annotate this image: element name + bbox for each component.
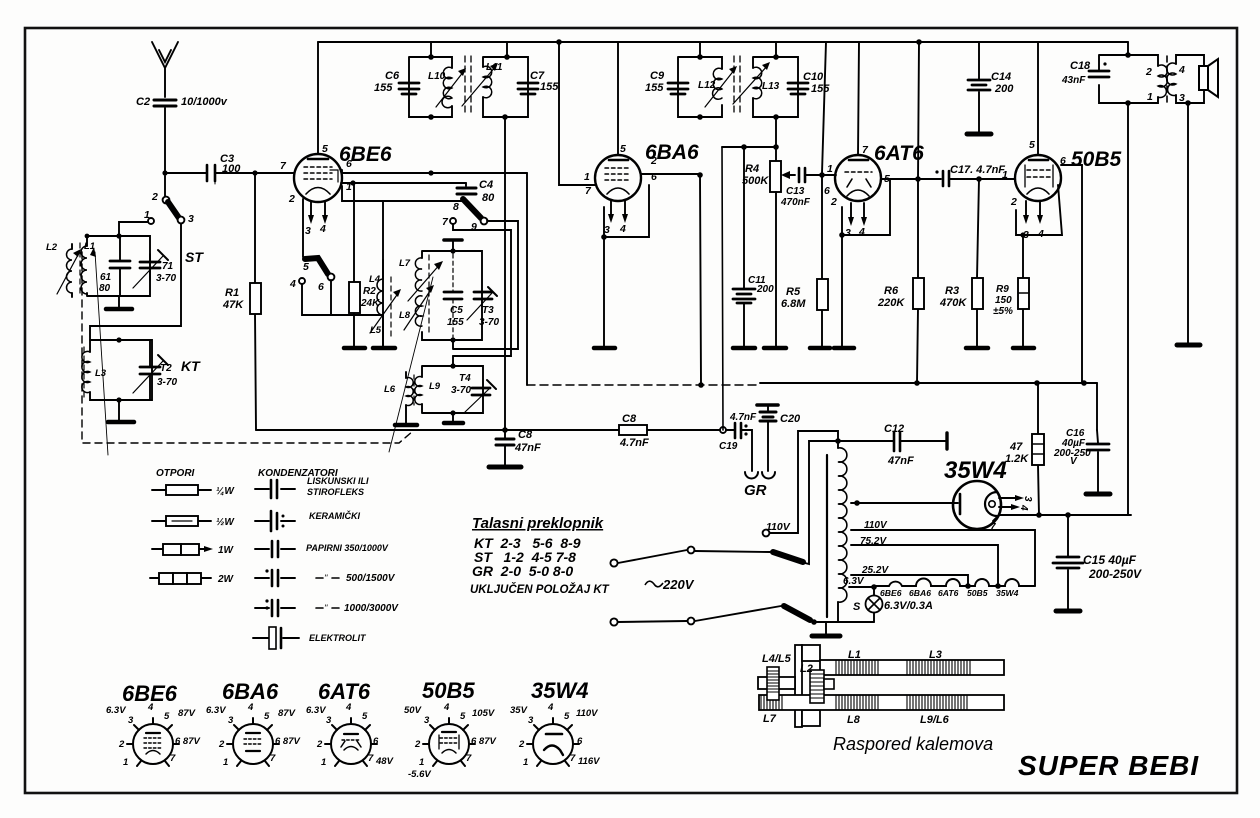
trimmer T3 3-70 [474, 292, 492, 299]
svg-text:2W: 2W [217, 574, 235, 585]
heater chain 6BE6 6BA6 6AT6 50B5 35W4 [874, 579, 1035, 586]
svg-text:½W: ½W [216, 517, 235, 528]
50B5 pin numbers [1002, 139, 1066, 241]
6BE6 pin5 to bus [317, 42, 319, 154]
coil board plate [795, 645, 802, 727]
pinout 6AT6 labels [306, 702, 394, 768]
svg-text:3: 3 [188, 213, 194, 225]
tap 110V [851, 530, 1035, 586]
svg-text:1: 1 [1002, 169, 1008, 181]
secondary box [1176, 55, 1204, 103]
svg-text:Raspored kalemova: Raspored kalemova [833, 734, 993, 754]
IF transformer 2 box L12 [678, 57, 722, 117]
6AT6 diode box [842, 179, 890, 235]
switch terminal 4 [299, 278, 305, 284]
svg-text:50B5: 50B5 [967, 588, 988, 598]
coil L7 hatch [761, 695, 782, 710]
svg-text:1: 1 [144, 209, 150, 221]
svg-text:200-250V: 200-250V [1088, 567, 1142, 581]
svg-text:1: 1 [123, 757, 128, 768]
svg-text:6: 6 [824, 185, 830, 197]
capacitor C19 [720, 427, 726, 433]
svg-text:5: 5 [1029, 139, 1035, 151]
AVC line up [822, 42, 826, 173]
svg-text:3-70: 3-70 [156, 273, 176, 284]
transformer tap labels [843, 520, 889, 587]
winding top node [837, 441, 839, 448]
svg-text:L7: L7 [763, 713, 777, 725]
svg-text:6AT6: 6AT6 [938, 588, 959, 598]
IF transformer 1 box L11 [483, 57, 528, 117]
6BE6 cathode switch 5-6 [302, 199, 304, 257]
tube 50B5 internals [1029, 159, 1048, 162]
KT tank box [90, 340, 152, 400]
output primary coil [1158, 65, 1167, 97]
svg-text:220V: 220V [662, 577, 695, 592]
svg-text:L7: L7 [399, 258, 411, 269]
svg-text:2: 2 [518, 739, 525, 750]
L8 arrow [404, 288, 432, 330]
svg-text:50V: 50V [404, 705, 422, 716]
R4 wiper arrow [786, 174, 795, 176]
capacitor C7 155 [518, 83, 538, 94]
svg-text:6 87V: 6 87V [471, 736, 496, 747]
L4/L5 arrow [370, 292, 399, 333]
legend cap elektrolit [253, 637, 299, 639]
svg-text:71: 71 [162, 261, 174, 272]
coil L10 [442, 67, 452, 108]
svg-text:KERAMIČKI: KERAMIČKI [309, 510, 360, 521]
svg-text:155: 155 [811, 83, 830, 95]
svg-text:1: 1 [346, 181, 352, 193]
svg-text:UKLJUČEN POLOŽAJ KT: UKLJUČEN POLOŽAJ KT [470, 583, 610, 596]
svg-text:6: 6 [651, 171, 657, 183]
legend resistor 1/4W [152, 489, 211, 491]
svg-text:L2: L2 [800, 663, 813, 675]
svg-text:C2: C2 [136, 96, 150, 108]
svg-text:ʹʹ: ʹʹ [324, 573, 328, 583]
AC switch top [610, 559, 617, 566]
wire to 6BA6 grid [559, 42, 596, 185]
output core [1166, 56, 1168, 102]
pinout 6BA6 [227, 718, 279, 766]
svg-text:100: 100 [222, 163, 241, 175]
legend resistor 1W [152, 548, 209, 550]
trimmer rod L4/L5 [758, 677, 795, 689]
coil L8 hatch [836, 695, 878, 710]
tube 6BA6 internals [609, 159, 628, 162]
svg-text:6: 6 [318, 281, 324, 293]
coil L12 [713, 68, 722, 99]
svg-text:2: 2 [414, 739, 421, 750]
pinout 6BE6 [127, 718, 179, 766]
svg-text:L11: L11 [486, 62, 503, 73]
svg-text:7: 7 [990, 522, 996, 533]
50B5 pin5 to bus [1037, 42, 1039, 155]
50B5 heater arrows [1026, 201, 1040, 217]
svg-text:3: 3 [305, 225, 311, 237]
resistor R5 6.8M [821, 175, 823, 347]
resistor R6 220K [917, 42, 919, 383]
switch terminal 7 [450, 218, 456, 224]
dashed chassis line mid [527, 384, 756, 386]
svg-text:L6: L6 [384, 384, 396, 395]
pinout 50B5 [423, 718, 475, 766]
svg-text:OTPORI: OTPORI [156, 468, 195, 479]
capacitor C10 155 [788, 83, 808, 94]
output transformer primary box [1099, 55, 1158, 103]
wire switch3 to KT coil [90, 224, 181, 340]
svg-text:L1: L1 [848, 649, 861, 661]
wire antenna node [165, 172, 206, 174]
svg-text:KT: KT [181, 358, 201, 374]
svg-text:4: 4 [289, 278, 296, 290]
svg-text:L13: L13 [762, 81, 780, 92]
svg-text:6.3V: 6.3V [106, 705, 126, 716]
svg-text:6BA6: 6BA6 [222, 679, 279, 704]
6BA6 cathode box [604, 185, 649, 237]
resistor R3 470K [977, 179, 979, 347]
svg-text:7: 7 [270, 753, 276, 764]
svg-text:4: 4 [319, 223, 326, 235]
svg-text:4.7nF: 4.7nF [619, 437, 649, 449]
output secondary coil [1167, 63, 1176, 96]
svg-text:SUPER BEBI: SUPER BEBI [1018, 750, 1199, 781]
svg-text:5: 5 [884, 173, 890, 185]
coil L11 [483, 66, 492, 98]
svg-text:4: 4 [443, 702, 450, 713]
svg-text:T3: T3 [482, 305, 494, 316]
svg-text:2: 2 [830, 196, 837, 208]
svg-text:150: 150 [995, 295, 1012, 306]
coil labels left [46, 241, 107, 379]
svg-text:6: 6 [577, 736, 583, 747]
svg-text:24K: 24K [360, 298, 380, 309]
svg-text:6: 6 [346, 158, 352, 170]
svg-text:L12: L12 [698, 80, 716, 91]
resistor R1 47K [255, 175, 256, 430]
svg-text:6 87V: 6 87V [275, 736, 300, 747]
coil board labels [762, 649, 950, 726]
svg-text:C14: C14 [991, 71, 1011, 83]
tube 6AT6 envelope [835, 155, 881, 201]
capacitor C18 [1089, 71, 1109, 77]
svg-text:4.7nF: 4.7nF [729, 412, 757, 423]
svg-text:2: 2 [118, 739, 125, 750]
svg-text:2: 2 [218, 739, 225, 750]
svg-text:4: 4 [1178, 64, 1185, 76]
svg-text:L8: L8 [399, 310, 411, 321]
tube 6BE6 internals [308, 158, 328, 161]
svg-text:6: 6 [373, 736, 379, 747]
svg-text:L3: L3 [929, 649, 942, 661]
svg-text:110V: 110V [766, 521, 791, 533]
svg-text:C8: C8 [518, 429, 533, 441]
pinout 35W4 labels [510, 702, 600, 768]
svg-text:5: 5 [564, 711, 570, 722]
svg-text:6BA6: 6BA6 [909, 588, 931, 598]
tube 6BE6 envelope [294, 154, 342, 202]
trimmer T1 71 3-70 [149, 254, 151, 280]
legend resistor 1/2W [152, 520, 211, 522]
capacitor C2 [154, 100, 176, 106]
svg-text:L4/L5: L4/L5 [762, 653, 792, 665]
coil L2 [67, 249, 72, 293]
capacitor C8 4.7nF series [619, 425, 647, 435]
svg-text:5: 5 [322, 143, 328, 155]
svg-text:T4: T4 [459, 373, 471, 384]
capacitor C12 47nF [838, 440, 893, 442]
svg-text:50B5: 50B5 [1071, 148, 1122, 171]
svg-text:2: 2 [1145, 66, 1152, 78]
svg-text:5: 5 [264, 711, 270, 722]
winding bottom [837, 602, 839, 622]
svg-text:6.3V: 6.3V [306, 705, 326, 716]
svg-text:4: 4 [147, 702, 154, 713]
svg-text:35W4: 35W4 [996, 588, 1019, 598]
top cap terminal [452, 241, 454, 251]
oscillator coil labels [369, 258, 441, 395]
ground under box2 [452, 413, 454, 422]
ground KT tank [118, 400, 120, 421]
power ground [825, 622, 827, 635]
svg-text:155: 155 [374, 82, 393, 94]
svg-text:L2: L2 [46, 242, 58, 253]
svg-text:5: 5 [362, 711, 368, 722]
resistor R9 150 [1022, 235, 1024, 347]
legend cap 1000/3000 [255, 607, 295, 609]
svg-text:47K: 47K [222, 299, 244, 311]
50B5 pin6 wire [1061, 165, 1082, 383]
svg-text:L10: L10 [428, 71, 446, 82]
svg-text:35W4: 35W4 [531, 678, 588, 703]
top bus wire [318, 41, 1128, 43]
svg-text:1: 1 [223, 757, 228, 768]
svg-text:35V: 35V [510, 705, 528, 716]
svg-text:1: 1 [523, 757, 528, 768]
svg-text:3: 3 [1023, 229, 1029, 241]
capacitor C4 80 [465, 183, 467, 186]
svg-text:L1: L1 [84, 241, 95, 252]
svg-text:3: 3 [604, 224, 610, 236]
svg-text:116V: 116V [578, 756, 600, 767]
coil rod bottom [759, 695, 1004, 710]
svg-text:1000/3000V: 1000/3000V [344, 603, 399, 614]
svg-text:8: 8 [453, 201, 459, 213]
svg-text:80: 80 [99, 283, 111, 294]
svg-text:T2: T2 [160, 363, 172, 374]
coil rod top [820, 660, 1004, 675]
switch 8-9 [463, 199, 481, 218]
capacitor C11 200 electrolytic [743, 147, 745, 347]
svg-text:R6: R6 [884, 285, 899, 297]
svg-text:PAPIRNI 350/1000V: PAPIRNI 350/1000V [306, 543, 389, 553]
svg-text:-5.6V: -5.6V [408, 769, 431, 780]
IF1 core [465, 56, 471, 116]
svg-text:155: 155 [540, 81, 559, 93]
svg-text:3: 3 [326, 715, 332, 726]
svg-text:6.3V/0.3A: 6.3V/0.3A [884, 600, 933, 612]
capacitor C20 [757, 403, 778, 407]
coil L3 [82, 351, 90, 392]
svg-text:C18: C18 [1070, 60, 1091, 72]
oscillator tank box [422, 251, 482, 340]
core dashes L1/L2 [79, 243, 81, 295]
svg-text:R5: R5 [786, 286, 801, 298]
svg-text:2: 2 [316, 739, 323, 750]
svg-text:200: 200 [756, 284, 774, 295]
coil L6 [406, 378, 413, 406]
svg-text:3: 3 [845, 227, 851, 239]
svg-text:3-70: 3-70 [157, 377, 177, 388]
svg-text:3: 3 [1022, 496, 1033, 502]
50B5 cathode box [1016, 185, 1062, 235]
legend cap liskunski [255, 488, 295, 490]
svg-text:±5%: ±5% [993, 306, 1013, 317]
svg-text:C13: C13 [786, 186, 805, 197]
speaker [1199, 66, 1208, 90]
coil L1 [81, 246, 87, 294]
svg-text:155: 155 [645, 82, 664, 94]
coil L1 hatch [836, 660, 878, 675]
svg-text:6BE6: 6BE6 [880, 588, 902, 598]
pinout 6BE6 labels [106, 702, 200, 768]
tube 6BA6 envelope [595, 155, 641, 201]
coil L7/L8 on box edge [415, 258, 422, 291]
svg-text:4: 4 [1037, 228, 1044, 240]
GR contact hooks [745, 472, 758, 479]
svg-text:C12: C12 [884, 423, 904, 435]
svg-text:155: 155 [447, 317, 464, 328]
capacitor C1 61/80 [119, 236, 121, 296]
svg-text:3: 3 [128, 715, 134, 726]
bus junction [556, 39, 562, 45]
capacitor C13 47nF [799, 168, 805, 182]
svg-text:200: 200 [994, 83, 1014, 95]
coil L3 hatch [907, 660, 970, 675]
svg-text:L4: L4 [369, 274, 381, 285]
6BA6 pin numbers [584, 143, 657, 236]
6BE6 pin1 wire + node [341, 182, 466, 184]
svg-text:2: 2 [151, 191, 158, 203]
wire IF1 sec bottom down [504, 117, 506, 430]
svg-text:5: 5 [620, 143, 626, 155]
AC switch bottom [610, 618, 617, 625]
potentiometer R4 500K [770, 161, 781, 192]
svg-text:Talasni preklopnik: Talasni preklopnik [472, 515, 604, 532]
ground ST tank [118, 296, 120, 308]
svg-text:110V: 110V [576, 708, 598, 719]
wire 9 to osc [453, 221, 518, 349]
svg-text:2: 2 [1010, 196, 1017, 208]
svg-text:ST: ST [185, 249, 204, 265]
svg-text:ELEKTROLIT: ELEKTROLIT [309, 633, 367, 643]
power transformer winding [838, 448, 847, 602]
svg-text:R4: R4 [745, 163, 759, 175]
svg-text:2: 2 [288, 193, 295, 205]
svg-text:3-70: 3-70 [451, 385, 471, 396]
svg-text:C10: C10 [803, 71, 824, 83]
AVC bus wire [256, 429, 723, 431]
6BA6 pin5 to bus [617, 42, 619, 155]
capacitor C17 4.7nF [935, 170, 938, 173]
svg-text:6AT6: 6AT6 [318, 679, 371, 704]
svg-text:R3: R3 [945, 285, 959, 297]
capacitor C9 155 [668, 83, 688, 94]
svg-text:LISKUNSKI ILI: LISKUNSKI ILI [307, 476, 369, 486]
svg-text:35W4: 35W4 [944, 457, 1007, 484]
wire plate line down [526, 173, 528, 385]
35W4 cathode output [993, 515, 1131, 521]
pinout 35W4 [527, 718, 579, 766]
surge resistor 47 1.2K [1038, 383, 1039, 515]
svg-text:GR: GR [744, 482, 767, 499]
6BE6 grid2 wire [342, 186, 467, 347]
svg-text:3: 3 [228, 715, 234, 726]
osc box2 L6/L9 T4 [422, 366, 483, 413]
svg-text:5: 5 [164, 711, 170, 722]
svg-text:7: 7 [170, 753, 176, 764]
6AT6 pin7 to bus [858, 42, 859, 155]
6AT6 heater arrows [851, 203, 864, 219]
35W4 plate bar [959, 494, 962, 514]
svg-text:87V: 87V [278, 708, 296, 719]
capacitor C3 [207, 165, 215, 181]
legend cap papirni [255, 548, 295, 550]
svg-text:7: 7 [368, 753, 374, 764]
svg-text:C8: C8 [622, 413, 637, 425]
tap 6.3V [849, 586, 874, 588]
svg-text:C17. 4.7nF: C17. 4.7nF [950, 164, 1005, 176]
svg-text:1.2K: 1.2K [1005, 453, 1029, 465]
svg-text:470K: 470K [939, 297, 967, 309]
antenna [152, 42, 178, 97]
switch contact 2-3 (band switch) [164, 176, 166, 197]
gang line osc [389, 277, 433, 452]
35W4 plate wire [851, 502, 958, 504]
svg-text:L9: L9 [429, 381, 441, 392]
IF transformer 1 box L10 [409, 57, 452, 117]
svg-text:STIROFLEKS: STIROFLEKS [307, 487, 364, 497]
svg-text:80: 80 [482, 192, 495, 204]
svg-text:43nF: 43nF [1061, 75, 1086, 86]
wire IF2 sec bottom to R4 [775, 117, 777, 161]
svg-text:3: 3 [1179, 92, 1185, 104]
svg-text:¼W: ¼W [216, 486, 235, 497]
svg-text:4: 4 [1018, 504, 1029, 511]
svg-text:7: 7 [570, 753, 576, 764]
svg-text:L3: L3 [95, 368, 107, 379]
svg-text:1: 1 [321, 757, 326, 768]
svg-text:110V: 110V [864, 520, 888, 531]
coil L9/L6 hatch [907, 695, 967, 710]
svg-text:ʹʹ: ʹʹ [324, 603, 328, 613]
svg-text:R2: R2 [363, 286, 376, 297]
svg-text:4: 4 [619, 223, 626, 235]
resistor R2 24K [353, 185, 355, 347]
svg-text:6: 6 [1060, 155, 1066, 167]
dial lamp S [866, 596, 883, 613]
6BA6 plate wire pin6 [641, 173, 700, 175]
IF transformer 2 box L13 [753, 57, 798, 117]
svg-text:C6: C6 [385, 70, 400, 82]
svg-text:6.3V: 6.3V [206, 705, 226, 716]
6BA6 heater arrows [611, 201, 625, 216]
svg-text:1W: 1W [218, 545, 235, 556]
svg-text:6.8M: 6.8M [781, 298, 806, 310]
svg-text:1: 1 [419, 757, 424, 768]
tube 6AT6 internals [849, 159, 868, 162]
